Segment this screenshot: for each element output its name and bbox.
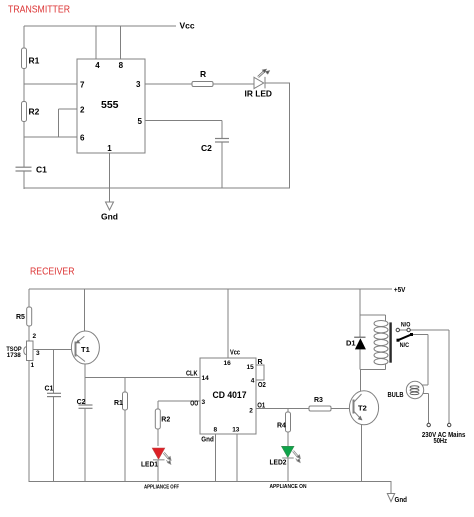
svg-text:3: 3 [136, 80, 141, 89]
svg-text:TRANSMITTER: TRANSMITTER [8, 5, 70, 16]
svg-text:R1: R1 [29, 56, 40, 66]
svg-text:1: 1 [31, 362, 35, 369]
svg-text:R2: R2 [29, 107, 40, 117]
svg-text:2: 2 [249, 408, 253, 415]
svg-text:6: 6 [80, 133, 85, 142]
svg-text:2: 2 [80, 105, 85, 114]
svg-text:IR LED: IR LED [245, 89, 273, 99]
svg-text:N/O: N/O [401, 321, 411, 328]
svg-text:O2: O2 [258, 382, 266, 389]
svg-text:4: 4 [251, 377, 255, 384]
svg-text:3: 3 [202, 399, 206, 406]
svg-text:R5: R5 [16, 314, 25, 321]
svg-text:8: 8 [119, 61, 124, 70]
svg-text:Gnd: Gnd [395, 497, 408, 504]
svg-text:R: R [200, 69, 206, 79]
svg-text:+5V: +5V [394, 285, 406, 294]
svg-text:C1: C1 [36, 165, 47, 175]
svg-text:13: 13 [232, 427, 240, 434]
svg-text:APPLIANCE ON: APPLIANCE ON [270, 484, 307, 490]
svg-text:50Hz: 50Hz [434, 438, 448, 445]
svg-text:C1: C1 [45, 386, 54, 393]
svg-text:APPLIANCE OFF: APPLIANCE OFF [144, 485, 180, 491]
svg-text:14: 14 [202, 375, 210, 382]
svg-text:Vcc: Vcc [230, 350, 240, 357]
svg-text:C2: C2 [77, 399, 86, 406]
svg-text:7: 7 [80, 80, 85, 89]
svg-text:LED1: LED1 [141, 461, 158, 468]
svg-text:T1: T1 [81, 345, 90, 354]
svg-text:C2: C2 [201, 143, 212, 153]
svg-text:3: 3 [36, 350, 40, 357]
svg-text:Gnd: Gnd [101, 212, 118, 222]
svg-text:D1: D1 [346, 338, 356, 347]
svg-text:1: 1 [107, 144, 112, 153]
svg-text:O1: O1 [257, 402, 265, 409]
svg-text:BULB: BULB [388, 392, 404, 399]
svg-text:R3: R3 [314, 397, 323, 404]
svg-text:15: 15 [247, 364, 255, 371]
svg-text:OO: OO [190, 400, 198, 407]
svg-text:2: 2 [33, 333, 37, 340]
svg-text:555: 555 [101, 99, 119, 111]
svg-text:R1: R1 [114, 400, 123, 407]
svg-text:Gnd: Gnd [201, 437, 214, 444]
svg-text:CD 4017: CD 4017 [213, 390, 247, 401]
svg-text:Vcc: Vcc [180, 21, 195, 31]
svg-text:N/C: N/C [400, 342, 410, 349]
svg-text:8: 8 [214, 427, 218, 434]
svg-text:1738: 1738 [7, 353, 22, 359]
svg-text:5: 5 [138, 117, 143, 126]
svg-text:T2: T2 [358, 404, 367, 413]
svg-text:4: 4 [95, 61, 100, 70]
svg-text:R: R [258, 359, 263, 366]
svg-text:16: 16 [224, 360, 232, 367]
svg-text:CLK: CLK [186, 370, 198, 377]
svg-text:R2: R2 [161, 416, 170, 423]
svg-text:TSOP: TSOP [6, 347, 21, 353]
svg-text:RECEIVER: RECEIVER [30, 266, 75, 277]
svg-text:R4: R4 [277, 423, 286, 430]
svg-text:LED2: LED2 [270, 460, 287, 467]
